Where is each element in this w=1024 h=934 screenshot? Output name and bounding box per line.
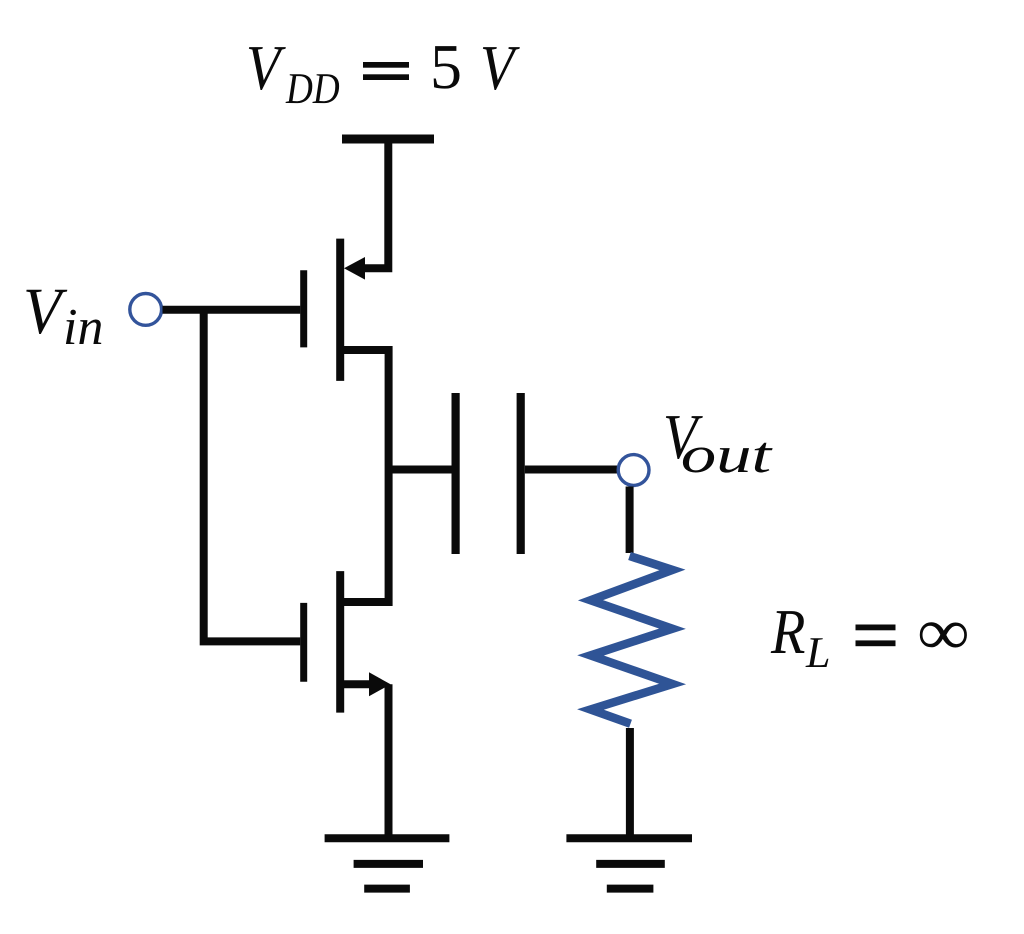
wire Vin to PMOS gate [163,306,301,314]
VDD power rail bar [342,135,434,144]
capacitor left plate [452,393,460,554]
wire NMOS source down to ground [385,684,393,838]
wire drain node to capacitor left plate [385,466,452,474]
NMOS source arrowhead [369,672,391,696]
transistor PMOS gate bar [300,270,307,347]
wire resistor down to ground [626,728,634,838]
wire NMOS source horizontal [344,680,372,688]
label VDD = 5 V [249,46,520,103]
wire capacitor right plate to Vout [525,466,618,474]
node Vout terminal circle [618,455,649,486]
transistor NMOS channel bar [336,571,344,713]
label RL = infinity [771,611,967,667]
PMOS source arrowhead [344,257,365,280]
wire VDD stem to PMOS source [362,143,388,268]
capacitor right plate [517,393,525,554]
transistor NMOS gate bar [300,603,307,682]
wire Vout circle down to resistor [626,487,634,554]
wire Vin branch down to NMOS gate [204,313,301,641]
ground right (RL) [566,838,692,888]
ground left (NMOS source) [325,838,450,888]
transistor PMOS channel bar [336,239,344,381]
label Vin [26,290,101,344]
resistor RL zigzag [591,556,673,724]
label Vout [666,416,773,473]
node Vin terminal circle [130,294,162,326]
wire PMOS drain to NMOS drain [344,350,389,602]
